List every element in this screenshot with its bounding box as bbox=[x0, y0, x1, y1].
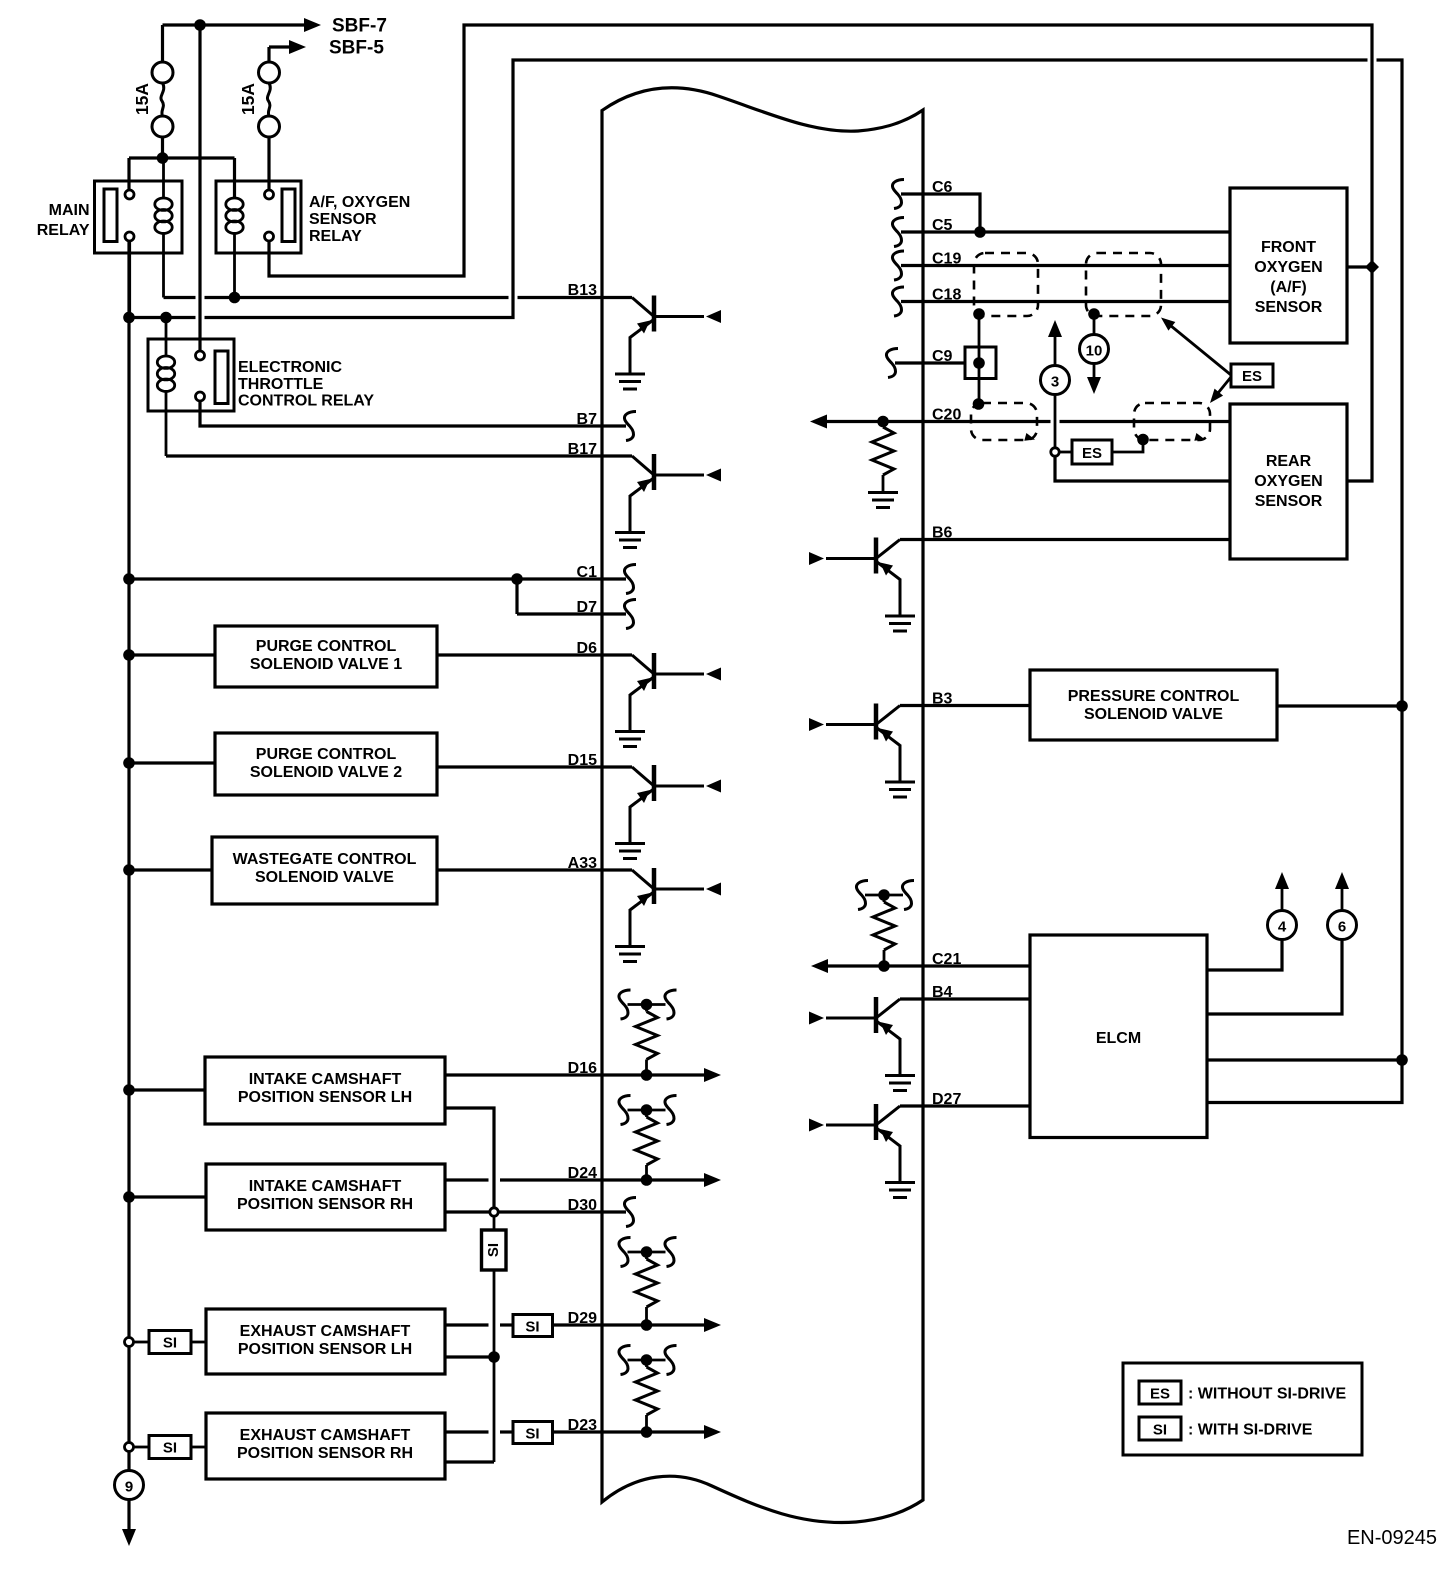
node rail x129 bbox=[123, 312, 135, 324]
wire page 6 arrow up bbox=[1335, 872, 1349, 911]
svg-text:SOLENOID VALVE: SOLENOID VALVE bbox=[255, 869, 394, 886]
svg-text:PURGE CONTROL: PURGE CONTROL bbox=[256, 638, 397, 655]
svg-text:SENSOR: SENSOR bbox=[1255, 299, 1323, 316]
svg-text:SI: SI bbox=[485, 1243, 502, 1257]
svg-text:D7: D7 bbox=[577, 599, 598, 616]
svg-text:C18: C18 bbox=[932, 287, 961, 304]
svg-text:SI: SI bbox=[525, 1319, 539, 1336]
wire page 10 arrow down bbox=[1087, 364, 1101, 395]
connector circled 4 bbox=[1268, 911, 1297, 940]
svg-text:SI: SI bbox=[1153, 1422, 1167, 1439]
wire exhaust LH pin2 bbox=[445, 1355, 494, 1358]
connector circled 9 bbox=[115, 1471, 144, 1500]
label B17 bbox=[568, 441, 597, 458]
wire fuse F2 to A/F relay bbox=[267, 136, 270, 191]
svg-text:CONTROL RELAY: CONTROL RELAY bbox=[238, 393, 374, 410]
node supply rail pressure valve bbox=[1396, 700, 1408, 712]
svg-text:ELECTRONIC: ELECTRONIC bbox=[238, 359, 342, 376]
svg-text:SI: SI bbox=[163, 1440, 177, 1457]
svg-text:PURGE CONTROL: PURGE CONTROL bbox=[256, 746, 397, 763]
svg-text:(A/F): (A/F) bbox=[1270, 279, 1306, 296]
wire rail to purge valve 1 bbox=[129, 653, 215, 656]
svg-text:10: 10 bbox=[1086, 343, 1103, 360]
wire B4 bbox=[900, 997, 1030, 1000]
wire break D7 bbox=[624, 600, 636, 629]
node shield C20 right bbox=[1137, 434, 1149, 446]
wire rail to intake cam LH bbox=[129, 1088, 205, 1091]
wire B17 from ETC coil bbox=[166, 454, 632, 457]
svg-text:WASTEGATE CONTROL: WASTEGATE CONTROL bbox=[233, 851, 417, 868]
transistor B3 driver bbox=[809, 704, 915, 798]
svg-text:SOLENOID VALVE 1: SOLENOID VALVE 1 bbox=[250, 656, 402, 673]
label A/F, OXYGEN SENSOR RELAY bbox=[309, 194, 410, 245]
resistor pull-up D16 bbox=[619, 990, 677, 1081]
wire SBF-5 feed bbox=[269, 40, 306, 62]
svg-text:THROTTLE: THROTTLE bbox=[238, 376, 324, 393]
svg-text:A33: A33 bbox=[568, 855, 597, 872]
transistor D27 driver bbox=[809, 1104, 915, 1198]
label WITH SI-DRIVE bbox=[1188, 1422, 1313, 1439]
svg-text:SENSOR: SENSOR bbox=[309, 211, 377, 228]
svg-text:D30: D30 bbox=[568, 1197, 597, 1214]
connector ES box lower bbox=[1060, 440, 1144, 464]
resistor pull-up D29 bbox=[619, 1238, 677, 1331]
svg-text:OXYGEN: OXYGEN bbox=[1254, 473, 1322, 490]
label A33 bbox=[568, 855, 597, 872]
node connector D30 branch bbox=[490, 1208, 498, 1216]
svg-text:SOLENOID VALVE: SOLENOID VALVE bbox=[1084, 706, 1223, 723]
svg-text:D16: D16 bbox=[568, 1060, 597, 1077]
box PRESSURE CONTROL SOLENOID VALVE bbox=[1030, 670, 1277, 740]
label D15 bbox=[568, 752, 597, 769]
svg-text:EN-09245: EN-09245 bbox=[1347, 1527, 1437, 1549]
node C21 resistor tap bbox=[878, 960, 890, 972]
node rail C1 bbox=[123, 573, 135, 585]
wire D23 bbox=[445, 1430, 513, 1433]
wire D6 bbox=[437, 653, 632, 656]
wire D30 bbox=[445, 1210, 626, 1213]
label ELECTRONIC THROTTLE CONTROL RELAY bbox=[238, 359, 374, 410]
wire C1 bbox=[129, 577, 626, 580]
svg-text:B13: B13 bbox=[568, 282, 597, 299]
wire C18 bbox=[892, 287, 1230, 316]
svg-text:C9: C9 bbox=[932, 348, 953, 365]
relay A/F OXYGEN SENSOR RELAY bbox=[216, 181, 301, 298]
node junction at top rail bbox=[194, 19, 206, 31]
svg-text:C20: C20 bbox=[932, 407, 961, 424]
box REAR OXYGEN SENSOR bbox=[1230, 404, 1347, 559]
svg-text:B3: B3 bbox=[932, 691, 953, 708]
wire pressure valve to supply rail bbox=[1277, 704, 1402, 707]
transistor B17 driver bbox=[615, 454, 721, 548]
svg-text:D15: D15 bbox=[568, 752, 597, 769]
legend box bbox=[1123, 1363, 1362, 1455]
wire C20 bbox=[810, 415, 1230, 429]
connector SI (rotated) on D30 net bbox=[482, 1216, 507, 1462]
svg-text:D24: D24 bbox=[568, 1165, 597, 1182]
svg-text:B7: B7 bbox=[577, 411, 598, 428]
svg-text:RELAY: RELAY bbox=[37, 222, 90, 239]
node supply rail ELCM bbox=[1396, 1054, 1408, 1066]
svg-text:6: 6 bbox=[1338, 919, 1346, 936]
svg-text:POSITION SENSOR RH: POSITION SENSOR RH bbox=[237, 1196, 413, 1213]
wire B3 bbox=[900, 704, 1030, 707]
box PURGE CONTROL SOLENOID VALVE 2 bbox=[215, 733, 437, 795]
box EXHAUST CAMSHAFT POSITION SENSOR LH bbox=[206, 1309, 445, 1374]
wire C9 bbox=[886, 349, 965, 378]
connector ES branch (open) bbox=[1051, 448, 1059, 456]
wire page 4 arrow up bbox=[1275, 872, 1289, 911]
node exhaust LH pin2 junction bbox=[488, 1351, 500, 1363]
svg-text:9: 9 bbox=[125, 1479, 133, 1496]
svg-text:POSITION SENSOR RH: POSITION SENSOR RH bbox=[237, 1445, 413, 1462]
wire D16 bbox=[445, 1068, 721, 1082]
node shield bottom bbox=[973, 398, 985, 410]
node rail x166 bbox=[160, 312, 172, 324]
label D29 bbox=[568, 1310, 597, 1327]
wire B7 from ETC relay bbox=[200, 401, 626, 426]
svg-text:SENSOR: SENSOR bbox=[1255, 493, 1323, 510]
node shield 2 bbox=[1088, 308, 1100, 320]
label C20 bbox=[932, 407, 961, 424]
label D30 bbox=[568, 1197, 597, 1214]
svg-text:EXHAUST CAMSHAFT: EXHAUST CAMSHAFT bbox=[240, 1427, 411, 1444]
label 15A (F2) bbox=[238, 83, 258, 115]
wire ELCM to supply rail bbox=[1207, 1058, 1402, 1061]
node rail intake RH bbox=[123, 1191, 135, 1203]
connector circled 3 bbox=[1041, 366, 1070, 395]
connector rail to exhaust RH (open) bbox=[125, 1443, 150, 1452]
fuse F2 15A bbox=[259, 62, 280, 137]
ground C20 resistor bbox=[868, 493, 898, 508]
label C21 bbox=[932, 951, 961, 968]
node C1/D7 branch bbox=[511, 573, 523, 614]
fuse F1 15A bbox=[152, 62, 173, 137]
svg-text:PRESSURE CONTROL: PRESSURE CONTROL bbox=[1068, 688, 1240, 705]
shield dashed box C20 right bbox=[1134, 403, 1210, 443]
svg-text:SBF-7: SBF-7 bbox=[332, 16, 387, 37]
node rail purge1 bbox=[123, 649, 135, 661]
svg-text:MAIN: MAIN bbox=[49, 202, 90, 219]
wire B13 net from relay coils bbox=[164, 296, 633, 299]
shield dashed box C19/C18 right bbox=[1086, 253, 1161, 316]
label C5 bbox=[932, 217, 953, 234]
connector circled 10 bbox=[1080, 335, 1109, 364]
wire circled 3 to rear oxygen sensor bbox=[1055, 395, 1230, 482]
svg-text:POSITION SENSOR LH: POSITION SENSOR LH bbox=[238, 1089, 412, 1106]
svg-text:4: 4 bbox=[1278, 919, 1287, 936]
label D7 bbox=[577, 599, 598, 616]
node rail purge2 bbox=[123, 757, 135, 769]
transistor B13 driver bbox=[615, 296, 721, 390]
connector rail to exhaust LH (open) bbox=[125, 1338, 150, 1347]
wire rail to purge valve 2 bbox=[129, 761, 215, 764]
svg-text:RELAY: RELAY bbox=[309, 228, 362, 245]
svg-text:C5: C5 bbox=[932, 217, 953, 234]
label MAIN RELAY bbox=[37, 202, 90, 239]
box WASTEGATE CONTROL SOLENOID VALVE bbox=[212, 837, 437, 904]
label C6 bbox=[932, 179, 953, 196]
svg-text:C1: C1 bbox=[577, 564, 598, 581]
wire D7 bbox=[517, 612, 626, 615]
resistor C21 pull-up bbox=[856, 881, 914, 967]
box ELCM bbox=[1030, 935, 1207, 1138]
wire fuse F1 to relays bbox=[129, 136, 235, 199]
wire B6 bbox=[900, 538, 1230, 541]
wire rail to intake cam RH bbox=[129, 1195, 206, 1198]
svg-text:POSITION SENSOR LH: POSITION SENSOR LH bbox=[238, 1341, 412, 1358]
svg-text:SBF-5: SBF-5 bbox=[329, 38, 384, 59]
wire shield drain 2 to page 10 bbox=[1093, 314, 1096, 334]
label SBF-7 bbox=[332, 16, 387, 37]
label D16 bbox=[568, 1060, 597, 1077]
ECM block outline (torn edges) bbox=[602, 88, 923, 1523]
wire sensor signal via circled 3 bbox=[1048, 320, 1062, 365]
label WITHOUT SI-DRIVE bbox=[1188, 1386, 1347, 1403]
resistor C20 to ground bbox=[872, 422, 894, 493]
transistor D15 driver bbox=[615, 765, 721, 859]
svg-text:D6: D6 bbox=[577, 640, 598, 657]
legend SI symbol bbox=[1139, 1417, 1181, 1440]
wire break D30 bbox=[624, 1198, 636, 1227]
svg-text:C6: C6 bbox=[932, 179, 953, 196]
svg-text:B6: B6 bbox=[932, 525, 953, 542]
legend ES symbol bbox=[1139, 1381, 1181, 1404]
label B4 bbox=[932, 984, 953, 1001]
wire ignition feed to ETC relay contact bbox=[198, 25, 201, 351]
transistor B6 driver bbox=[809, 538, 915, 632]
shield dashed box C20 left bbox=[971, 403, 1037, 443]
wire exhaust RH pin2 bbox=[445, 1460, 494, 1463]
wire C19 bbox=[892, 251, 1230, 280]
node rail wastegate bbox=[123, 864, 135, 876]
resistor pull-up D23 bbox=[619, 1346, 677, 1438]
svg-text:D27: D27 bbox=[932, 1091, 961, 1108]
relay MAIN RELAY bbox=[95, 158, 183, 298]
svg-text:ES: ES bbox=[1150, 1386, 1170, 1403]
svg-text:OXYGEN: OXYGEN bbox=[1254, 259, 1322, 276]
wire shield drain to C9 connector bbox=[978, 309, 981, 404]
svg-text:3: 3 bbox=[1051, 374, 1059, 391]
transistor B4 driver bbox=[809, 997, 915, 1091]
svg-text:FRONT: FRONT bbox=[1261, 239, 1316, 256]
svg-text:15A: 15A bbox=[238, 83, 258, 115]
wire D27 bbox=[900, 1104, 1030, 1107]
svg-text:D29: D29 bbox=[568, 1310, 597, 1327]
wire D24 bbox=[445, 1173, 721, 1187]
svg-text:D23: D23 bbox=[568, 1417, 597, 1434]
node C6/C5 join bbox=[974, 226, 986, 238]
label D27 bbox=[932, 1091, 961, 1108]
svg-text:: WITH SI-DRIVE: : WITH SI-DRIVE bbox=[1188, 1422, 1313, 1439]
connector SI exhaust RH bbox=[149, 1436, 206, 1459]
svg-text:B17: B17 bbox=[568, 441, 597, 458]
label D23 bbox=[568, 1417, 597, 1434]
wire A33 bbox=[436, 868, 632, 871]
connector C9 joint box bbox=[965, 347, 996, 379]
shield dashed box C19/C18 left bbox=[974, 253, 1038, 316]
wire break C1 bbox=[624, 565, 636, 594]
node rail intake LH bbox=[123, 1084, 135, 1096]
wire D23 into ECM bbox=[553, 1425, 722, 1439]
label D6 bbox=[577, 640, 598, 657]
svg-text:15A: 15A bbox=[132, 83, 152, 115]
connector SI on D23 bbox=[513, 1422, 553, 1444]
svg-text:C21: C21 bbox=[932, 951, 961, 968]
connector SI on D29 bbox=[513, 1315, 553, 1337]
wire switched supply rail to ELCM bbox=[129, 60, 1402, 1103]
label B13 bbox=[568, 282, 597, 299]
box PURGE CONTROL SOLENOID VALVE 1 bbox=[215, 626, 437, 687]
svg-text:INTAKE CAMSHAFT: INTAKE CAMSHAFT bbox=[249, 1178, 402, 1195]
wire ELCM to circled 4 bbox=[1207, 940, 1282, 970]
svg-text:INTAKE CAMSHAFT: INTAKE CAMSHAFT bbox=[249, 1071, 402, 1088]
svg-text:SOLENOID VALVE 2: SOLENOID VALVE 2 bbox=[250, 764, 402, 781]
label B6 bbox=[932, 525, 953, 542]
label SBF-5 bbox=[329, 38, 384, 59]
wire SBF-7 feed bbox=[163, 18, 322, 62]
svg-text:SI: SI bbox=[525, 1426, 539, 1443]
transistor A33 driver bbox=[615, 868, 721, 962]
label C19 bbox=[932, 251, 961, 268]
box INTAKE CAMSHAFT POSITION SENSOR LH bbox=[205, 1057, 445, 1124]
connector circled 6 bbox=[1328, 911, 1357, 940]
svg-text:ES: ES bbox=[1082, 445, 1102, 462]
connector ES box upper with arrows bbox=[1158, 313, 1273, 406]
label B7 bbox=[577, 411, 598, 428]
relay ELECTRONIC THROTTLE CONTROL RELAY bbox=[148, 318, 234, 457]
wire C6 bbox=[892, 180, 980, 233]
label C18 bbox=[932, 287, 961, 304]
box INTAKE CAMSHAFT POSITION SENSOR RH bbox=[206, 1164, 445, 1230]
transistor D6 driver bbox=[615, 653, 721, 747]
wire C21 bbox=[811, 959, 1030, 973]
wire break B7 bbox=[624, 412, 636, 441]
label C9 bbox=[932, 348, 953, 365]
wire D29 bbox=[445, 1323, 513, 1326]
box FRONT OXYGEN (A/F) SENSOR bbox=[1230, 188, 1347, 343]
svg-text:: WITHOUT SI-DRIVE: : WITHOUT SI-DRIVE bbox=[1188, 1386, 1347, 1403]
wire ground rail left bbox=[127, 241, 130, 1471]
node front oxygen sensor B+ bbox=[1347, 260, 1379, 274]
label B3 bbox=[932, 691, 953, 708]
svg-text:B4: B4 bbox=[932, 984, 953, 1001]
label D24 bbox=[568, 1165, 597, 1182]
label C1 bbox=[577, 564, 598, 581]
label 15A (F1) bbox=[132, 83, 152, 115]
wire to page 9 arrow bbox=[122, 1500, 136, 1547]
svg-text:ES: ES bbox=[1242, 368, 1262, 385]
wire D29 into ECM bbox=[553, 1318, 722, 1332]
wire ELCM to circled 6 bbox=[1207, 940, 1342, 1014]
svg-text:C19: C19 bbox=[932, 251, 961, 268]
svg-text:REAR: REAR bbox=[1266, 453, 1312, 470]
box EXHAUST CAMSHAFT POSITION SENSOR RH bbox=[206, 1413, 445, 1479]
svg-text:A/F, OXYGEN: A/F, OXYGEN bbox=[309, 194, 410, 211]
node fuse F1 output bbox=[157, 152, 169, 164]
wire C5 bbox=[892, 218, 1230, 247]
wire A/F relay contact to top right rail bbox=[269, 25, 1372, 481]
resistor pull-up D24 bbox=[619, 1096, 677, 1186]
node shield top bbox=[973, 308, 985, 320]
label EN-09245 bbox=[1347, 1527, 1437, 1549]
node C20 resistor tap bbox=[877, 416, 889, 428]
node coil junction B13 bbox=[229, 292, 241, 304]
connector SI exhaust LH bbox=[149, 1331, 206, 1354]
svg-text:SI: SI bbox=[163, 1335, 177, 1352]
wire intake LH pin2 to D30 net bbox=[445, 1108, 494, 1208]
wire rail to wastegate valve bbox=[129, 868, 212, 871]
svg-text:ELCM: ELCM bbox=[1096, 1030, 1141, 1047]
svg-text:EXHAUST CAMSHAFT: EXHAUST CAMSHAFT bbox=[240, 1323, 411, 1340]
wire D15 bbox=[437, 765, 632, 768]
wire MAIN relay contact to left rail bbox=[128, 241, 131, 318]
